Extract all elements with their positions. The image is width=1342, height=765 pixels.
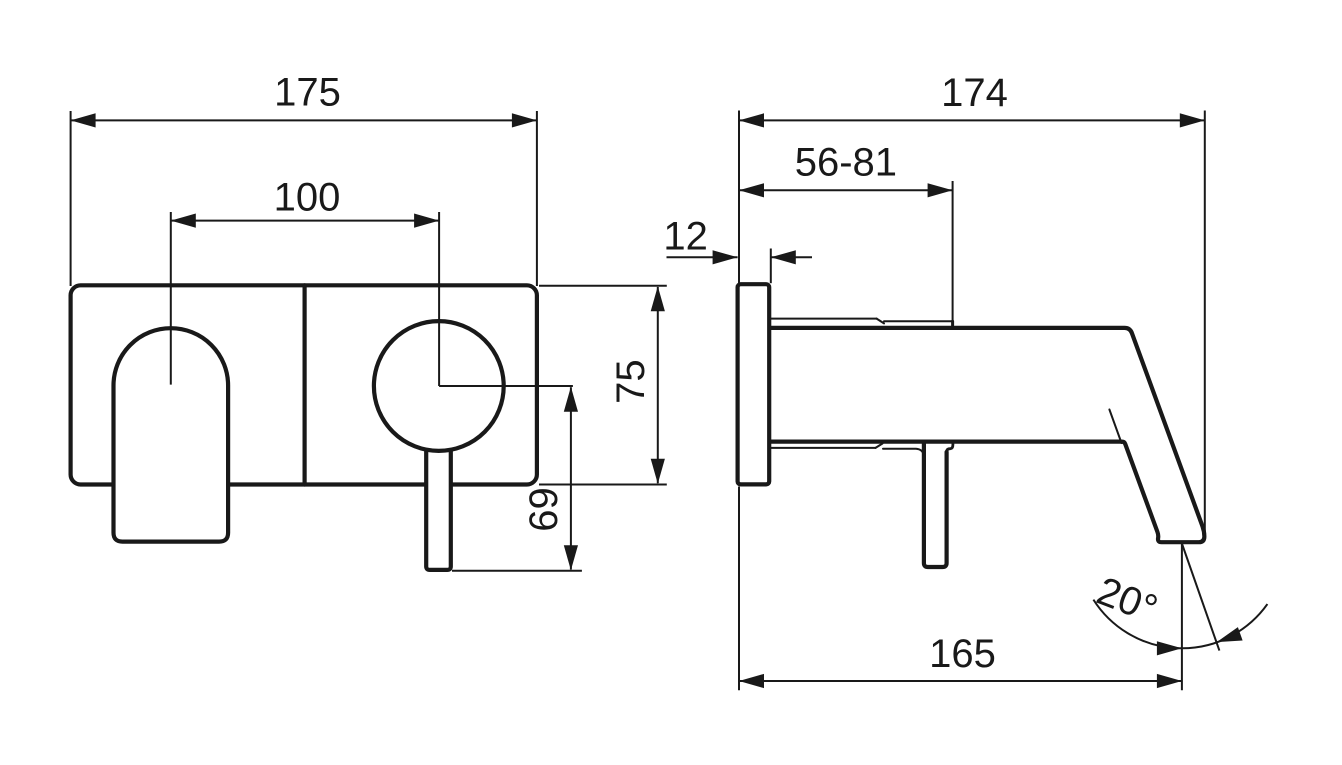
ext line 75 bottom bbox=[539, 484, 667, 486]
leader line 12 right bbox=[771, 256, 812, 258]
svg-text:75: 75 bbox=[609, 359, 653, 404]
top rail notch bbox=[877, 319, 884, 324]
arrow 12 right (outside, pointing left) bbox=[771, 250, 796, 264]
arrow 56-81 right bbox=[928, 183, 953, 197]
ext line 56-81 right bbox=[952, 181, 954, 320]
arrow 56-81 left bbox=[739, 183, 764, 197]
top rail segment 1 bbox=[770, 318, 877, 320]
ext line 100 right bbox=[438, 212, 440, 386]
arrow angle at vertical leg bbox=[1157, 641, 1182, 655]
ext line 175 left bbox=[70, 111, 72, 286]
faceplate divider bbox=[303, 285, 307, 484]
right view dimensions bbox=[667, 111, 1268, 691]
dim line 56-81 bbox=[739, 189, 953, 191]
ext line 69 bottom bbox=[452, 570, 582, 572]
arrow 75 up bbox=[651, 286, 665, 311]
ext line 100 left bbox=[170, 212, 172, 385]
centerline from circle centre bbox=[439, 385, 573, 387]
arrow 69 up bbox=[564, 387, 578, 412]
lever handle front bbox=[114, 328, 229, 541]
arrow 174 left bbox=[739, 113, 764, 127]
top rail step bbox=[951, 321, 954, 328]
svg-text:69: 69 bbox=[522, 487, 566, 532]
arrow 165 right bbox=[1157, 674, 1182, 688]
angle slant leg 20deg bbox=[1182, 544, 1220, 651]
lever handle side bbox=[924, 442, 947, 567]
left view dimensions bbox=[71, 111, 667, 571]
dim line 165 bbox=[739, 680, 1182, 682]
spout inner edge line bbox=[1109, 410, 1121, 444]
leader line 12 left bbox=[667, 256, 738, 258]
ext line 165 left bbox=[738, 487, 740, 691]
dim line 100 bbox=[171, 220, 439, 222]
ext line 165 right / angle vertical leg bbox=[1181, 544, 1183, 691]
svg-text:12: 12 bbox=[663, 215, 708, 259]
arrow 100 right bbox=[414, 214, 439, 228]
arrow 175 right bbox=[512, 113, 537, 127]
svg-text:175: 175 bbox=[274, 71, 341, 115]
angle arc 20deg bbox=[1093, 600, 1267, 649]
arrow 100 left bbox=[171, 214, 196, 228]
arrow 12 left (outside, pointing right) bbox=[713, 250, 738, 264]
ext line 75 top bbox=[539, 285, 667, 287]
svg-text:100: 100 bbox=[274, 176, 341, 220]
dim line 69 bbox=[570, 387, 572, 569]
bottom rail segment 1 bbox=[770, 447, 876, 449]
dim line 174 bbox=[739, 119, 1205, 121]
arrow 69 down bbox=[564, 545, 578, 570]
ext line 12 right bbox=[770, 249, 772, 284]
faceplate front bbox=[71, 285, 537, 484]
svg-text:56-81: 56-81 bbox=[795, 141, 897, 185]
dim line 75 bbox=[657, 287, 659, 483]
arrow 165 left bbox=[739, 674, 764, 688]
spout circle front bbox=[374, 321, 504, 451]
dim line 175 bbox=[71, 119, 537, 121]
spout bar front bbox=[426, 438, 451, 570]
arrow angle at slant leg bbox=[1217, 627, 1243, 642]
ext line 174 left bbox=[738, 111, 740, 284]
arrow 175 left bbox=[71, 113, 96, 127]
arrow 75 down bbox=[651, 459, 665, 484]
lever right step bbox=[947, 442, 953, 452]
ext line 175 right bbox=[536, 111, 538, 286]
arrow 174 right bbox=[1180, 113, 1205, 127]
ext line 174 right bbox=[1204, 111, 1206, 540]
top rail segment 2 bbox=[884, 320, 953, 322]
svg-text:174: 174 bbox=[941, 71, 1008, 115]
bottom rail notch bbox=[876, 444, 883, 448]
wall plate side bbox=[738, 284, 770, 484]
body + spout side bbox=[769, 328, 1204, 542]
svg-text:165: 165 bbox=[929, 632, 996, 676]
bottom rail segment 2 bbox=[883, 449, 924, 455]
